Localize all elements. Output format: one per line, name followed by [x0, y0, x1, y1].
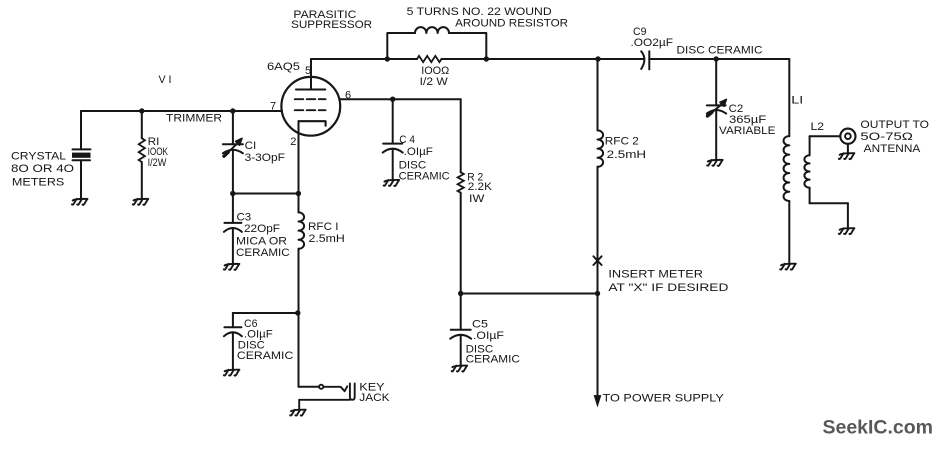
svg-text:2.2K: 2.2K: [468, 181, 493, 193]
svg-text:CERAMIC: CERAMIC: [237, 350, 293, 362]
svg-text:L2: L2: [811, 121, 825, 133]
svg-text:7: 7: [270, 101, 276, 113]
svg-text:LI: LI: [791, 95, 803, 107]
svg-text:JACK: JACK: [359, 392, 390, 404]
svg-text:TO POWER SUPPLY: TO POWER SUPPLY: [603, 393, 725, 405]
svg-text:SUPPRESSOR: SUPPRESSOR: [291, 19, 372, 31]
svg-text:.OO2µF: .OO2µF: [631, 37, 674, 49]
svg-text:CERAMIC: CERAMIC: [466, 354, 520, 366]
svg-text:SeekIC.com: SeekIC.com: [823, 418, 934, 439]
svg-text:8O OR 4O: 8O OR 4O: [11, 163, 75, 175]
svg-text:5O-75Ω: 5O-75Ω: [860, 131, 913, 143]
svg-text:I/2 W: I/2 W: [420, 76, 449, 88]
svg-text:CI: CI: [245, 140, 257, 152]
svg-text:METERS: METERS: [12, 177, 64, 189]
svg-text:2.5mH: 2.5mH: [309, 233, 345, 245]
svg-text:CERAMIC: CERAMIC: [236, 247, 290, 259]
svg-text:IW: IW: [469, 193, 485, 205]
svg-text:CERAMIC: CERAMIC: [399, 171, 450, 183]
svg-text:VARIABLE: VARIABLE: [719, 125, 776, 137]
svg-text:5: 5: [305, 65, 311, 77]
svg-text:C3: C3: [237, 212, 252, 224]
svg-text:MICA OR: MICA OR: [236, 236, 287, 248]
svg-text:DISC CERAMIC: DISC CERAMIC: [677, 45, 763, 57]
svg-text:I/2W: I/2W: [148, 157, 167, 169]
svg-text:5 TURNS NO. 22 WOUND: 5 TURNS NO. 22 WOUND: [407, 6, 552, 18]
svg-text:3-3OpF: 3-3OpF: [245, 152, 286, 164]
svg-text:RFC 2: RFC 2: [605, 136, 639, 148]
svg-text:22OpF: 22OpF: [244, 223, 280, 235]
svg-text:2.5mH: 2.5mH: [607, 149, 647, 161]
svg-text:C 4: C 4: [399, 134, 415, 146]
svg-text:2: 2: [290, 136, 296, 148]
svg-text:ANTENNA: ANTENNA: [864, 143, 921, 155]
svg-text:INSERT METER: INSERT METER: [608, 269, 703, 281]
svg-text:6AQ5: 6AQ5: [267, 61, 300, 73]
svg-text:6: 6: [345, 90, 351, 102]
svg-text:OUTPUT TO: OUTPUT TO: [860, 119, 929, 131]
svg-text:TRIMMER: TRIMMER: [166, 112, 222, 124]
svg-text:CRYSTAL: CRYSTAL: [11, 151, 66, 163]
svg-text:.OIµF: .OIµF: [404, 146, 433, 158]
svg-text:AT "X" IF DESIRED: AT "X" IF DESIRED: [608, 282, 728, 294]
svg-text:V I: V I: [159, 74, 172, 86]
svg-text:.OIµF: .OIµF: [473, 330, 504, 342]
svg-text:AROUND RESISTOR: AROUND RESISTOR: [455, 18, 568, 30]
svg-text:RFC I: RFC I: [308, 221, 339, 233]
svg-text:C5: C5: [472, 319, 488, 331]
